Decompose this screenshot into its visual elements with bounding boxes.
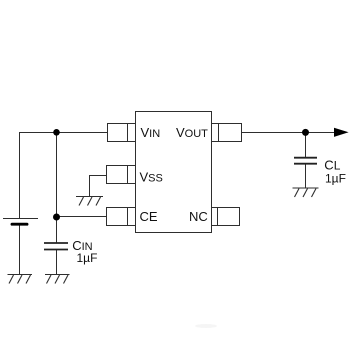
svg-text:VSS: VSS	[140, 170, 163, 185]
wire mid vertical (node A down to CIN)	[56, 132, 58, 243]
ground (VSS)	[76, 197, 103, 206]
faint artifact smudge	[195, 324, 217, 328]
capacitor CIN	[44, 243, 68, 250]
wire left vertical to battery	[19, 132, 21, 219]
wire input horizontal	[19, 132, 108, 134]
wire battery to ground	[19, 224, 21, 275]
ground (below battery)	[8, 275, 33, 284]
arrow output	[334, 128, 349, 137]
svg-text:NC: NC	[189, 209, 208, 224]
svg-text:CE: CE	[140, 209, 158, 224]
pin CE box	[107, 208, 136, 226]
wire CL to ground	[305, 164, 307, 189]
node A junction dot (input)	[53, 129, 60, 136]
wire CIN to ground	[56, 250, 58, 275]
node B junction dot (CE)	[53, 214, 60, 221]
pin VOUT box	[212, 124, 242, 142]
wire output horizontal	[242, 132, 336, 134]
wire VSS to ground	[90, 176, 108, 197]
svg-text:VOUT: VOUT	[176, 125, 208, 140]
pin NC box	[212, 208, 240, 226]
ground (below CL)	[293, 188, 319, 197]
node C junction dot (output)	[302, 129, 309, 136]
capacitor CL	[294, 158, 317, 164]
svg-text:1µF: 1µF	[77, 251, 98, 265]
pin VIN box	[108, 124, 136, 142]
battery BT1	[3, 219, 38, 225]
wire CL vertical top	[305, 132, 307, 158]
pin VSS box	[107, 166, 136, 184]
wire CE horizontal	[57, 216, 108, 218]
ground (below CIN)	[45, 275, 70, 284]
svg-text:1µF: 1µF	[325, 171, 346, 185]
op-amp U1 (regulator IC body)	[136, 112, 212, 233]
svg-text:VIN: VIN	[141, 125, 161, 140]
